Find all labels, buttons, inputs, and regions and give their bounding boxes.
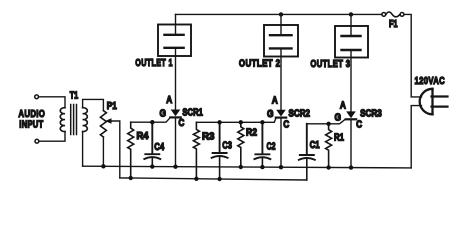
wire P1 wiper — [111, 121, 120, 178]
resistor R2 — [238, 122, 244, 167]
svg-text:INPUT: INPUT — [19, 119, 43, 131]
node SCR1 cathode rail A — [173, 165, 177, 169]
wire top rail — [176, 13, 382, 15]
svg-text:C3: C3 — [222, 141, 232, 152]
fuse F1 — [382, 12, 404, 17]
outlet 2 — [264, 25, 298, 57]
svg-text:R3: R3 — [202, 132, 215, 143]
wire rail A — [83, 166, 412, 168]
wire plug lower to bottom rail — [411, 106, 421, 168]
svg-text:A: A — [272, 96, 278, 107]
svg-text:T1: T1 — [70, 90, 79, 101]
svg-text:G: G — [160, 109, 167, 120]
node C2 top gate line — [260, 120, 264, 124]
svg-text:OUTLET 1: OUTLET 1 — [135, 57, 173, 69]
potentiometer P1 — [100, 111, 106, 137]
wire rail B — [120, 178, 307, 180]
node R2 top gate line — [239, 120, 243, 124]
resistor R3 — [193, 122, 199, 179]
wire gate line 3 — [307, 119, 346, 124]
svg-text:A: A — [166, 95, 172, 106]
svg-text:C4: C4 — [154, 142, 164, 153]
node R1 top gate line — [326, 122, 330, 126]
SCR3 — [346, 50, 356, 168]
node SCR2 cathode rail A — [279, 165, 283, 169]
svg-text:G: G — [267, 109, 274, 120]
node C4 bottom rail A — [150, 164, 154, 168]
node C4 top gate line — [150, 120, 154, 124]
resistor R4 — [128, 122, 134, 178]
svg-text:C: C — [356, 119, 362, 130]
capacitor C1 — [299, 124, 315, 180]
svg-text:R4: R4 — [137, 131, 149, 142]
node P1 bottom rail A — [101, 164, 105, 168]
svg-text:OUTLET 3: OUTLET 3 — [310, 58, 350, 70]
node C3 bottom rail B — [217, 177, 221, 181]
svg-text:F1: F1 — [389, 19, 398, 30]
svg-text:G: G — [335, 112, 342, 123]
wire outlet3 top stub — [350, 14, 352, 36]
plug 120VAC — [420, 89, 448, 115]
capacitor C3 — [212, 122, 228, 179]
svg-text:C1: C1 — [310, 140, 320, 151]
wire secondary top to P1 — [83, 99, 104, 110]
svg-text:C: C — [283, 120, 289, 131]
resistor R1 — [326, 124, 332, 168]
SCR1 — [170, 48, 180, 167]
svg-text:C2: C2 — [267, 142, 276, 153]
outlet 1 — [158, 25, 191, 57]
node R4 bottom rail B — [129, 176, 133, 180]
wire secondary bottom to rail A — [82, 132, 84, 167]
wire gate line 1 — [131, 118, 171, 123]
svg-text:OUTLET 2: OUTLET 2 — [239, 57, 281, 69]
capacitor C4 — [144, 122, 160, 166]
svg-text:C: C — [178, 118, 184, 129]
wire audio bottom to transformer — [39, 132, 65, 142]
svg-text:SCR1: SCR1 — [182, 107, 203, 118]
wire fuse to plug upper — [404, 14, 422, 97]
audio input terminal bottom — [35, 139, 39, 143]
audio input terminal top — [35, 95, 39, 99]
node C3 top gate line — [217, 120, 221, 124]
wire gate line 2 — [196, 118, 276, 122]
node R2 bottom rail A — [239, 165, 243, 169]
wire outlet2 top stub — [280, 14, 282, 35]
wire outlet1 top stub — [175, 14, 177, 34]
svg-text:R2: R2 — [246, 128, 257, 139]
node SCR3 cathode rail A — [349, 165, 353, 169]
svg-text:R1: R1 — [334, 133, 344, 144]
svg-text:SCR2: SCR2 — [289, 109, 311, 120]
node junction outlet3 top — [349, 12, 353, 16]
wire P1 bottom — [102, 137, 104, 166]
node R3 bottom rail B — [194, 177, 198, 181]
capacitor C2 — [254, 122, 270, 167]
outlet 3 — [335, 26, 368, 58]
svg-text:SCR3: SCR3 — [360, 109, 382, 120]
transformer T1 — [60, 105, 87, 135]
svg-text:P1: P1 — [107, 101, 117, 112]
svg-text:A: A — [340, 100, 346, 111]
node R1 bottom rail A — [326, 165, 330, 169]
node junction outlet2 top — [279, 12, 283, 16]
svg-text:120VAC: 120VAC — [415, 75, 446, 87]
node C2 bottom rail A — [260, 165, 264, 169]
SCR2 — [276, 48, 286, 167]
wire audio top to transformer — [39, 97, 65, 108]
